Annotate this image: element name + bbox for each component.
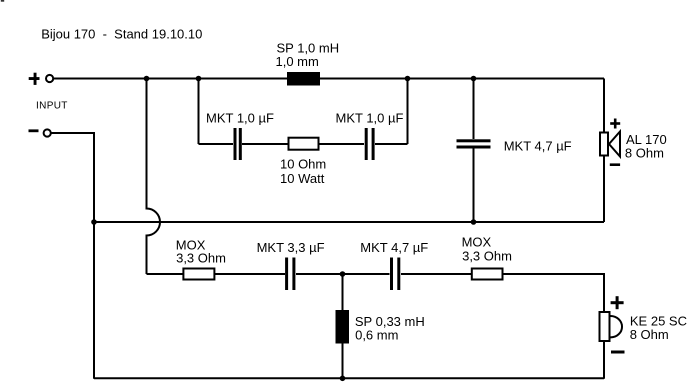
svg-text:8 Ohm: 8 Ohm (630, 327, 669, 342)
svg-text:MKT 4,7 µF: MKT 4,7 µF (360, 240, 428, 255)
svg-text:MKT 4,7 µF: MKT 4,7 µF (504, 138, 572, 153)
svg-text:10 Ohm: 10 Ohm (280, 156, 326, 171)
svg-text:MKT 3,3 µF: MKT 3,3 µF (257, 240, 325, 255)
svg-text:MKT 1,0 µF: MKT 1,0 µF (206, 110, 274, 125)
svg-text:MOX: MOX (462, 234, 492, 249)
svg-text:Bijou 170 - Stand 19.10.10: Bijou 170 - Stand 19.10.10 (41, 27, 202, 42)
svg-text:10 Watt: 10 Watt (280, 171, 325, 186)
svg-text:MKT 1,0 µF: MKT 1,0 µF (336, 110, 404, 125)
svg-text:INPUT: INPUT (36, 100, 68, 111)
svg-text:3,3 Ohm: 3,3 Ohm (462, 249, 512, 264)
svg-text:0,6 mm: 0,6 mm (355, 328, 398, 343)
svg-text:3,3 Ohm: 3,3 Ohm (176, 250, 226, 265)
svg-text:8 Ohm: 8 Ohm (625, 145, 664, 160)
svg-text:1,0 mm: 1,0 mm (276, 54, 319, 69)
